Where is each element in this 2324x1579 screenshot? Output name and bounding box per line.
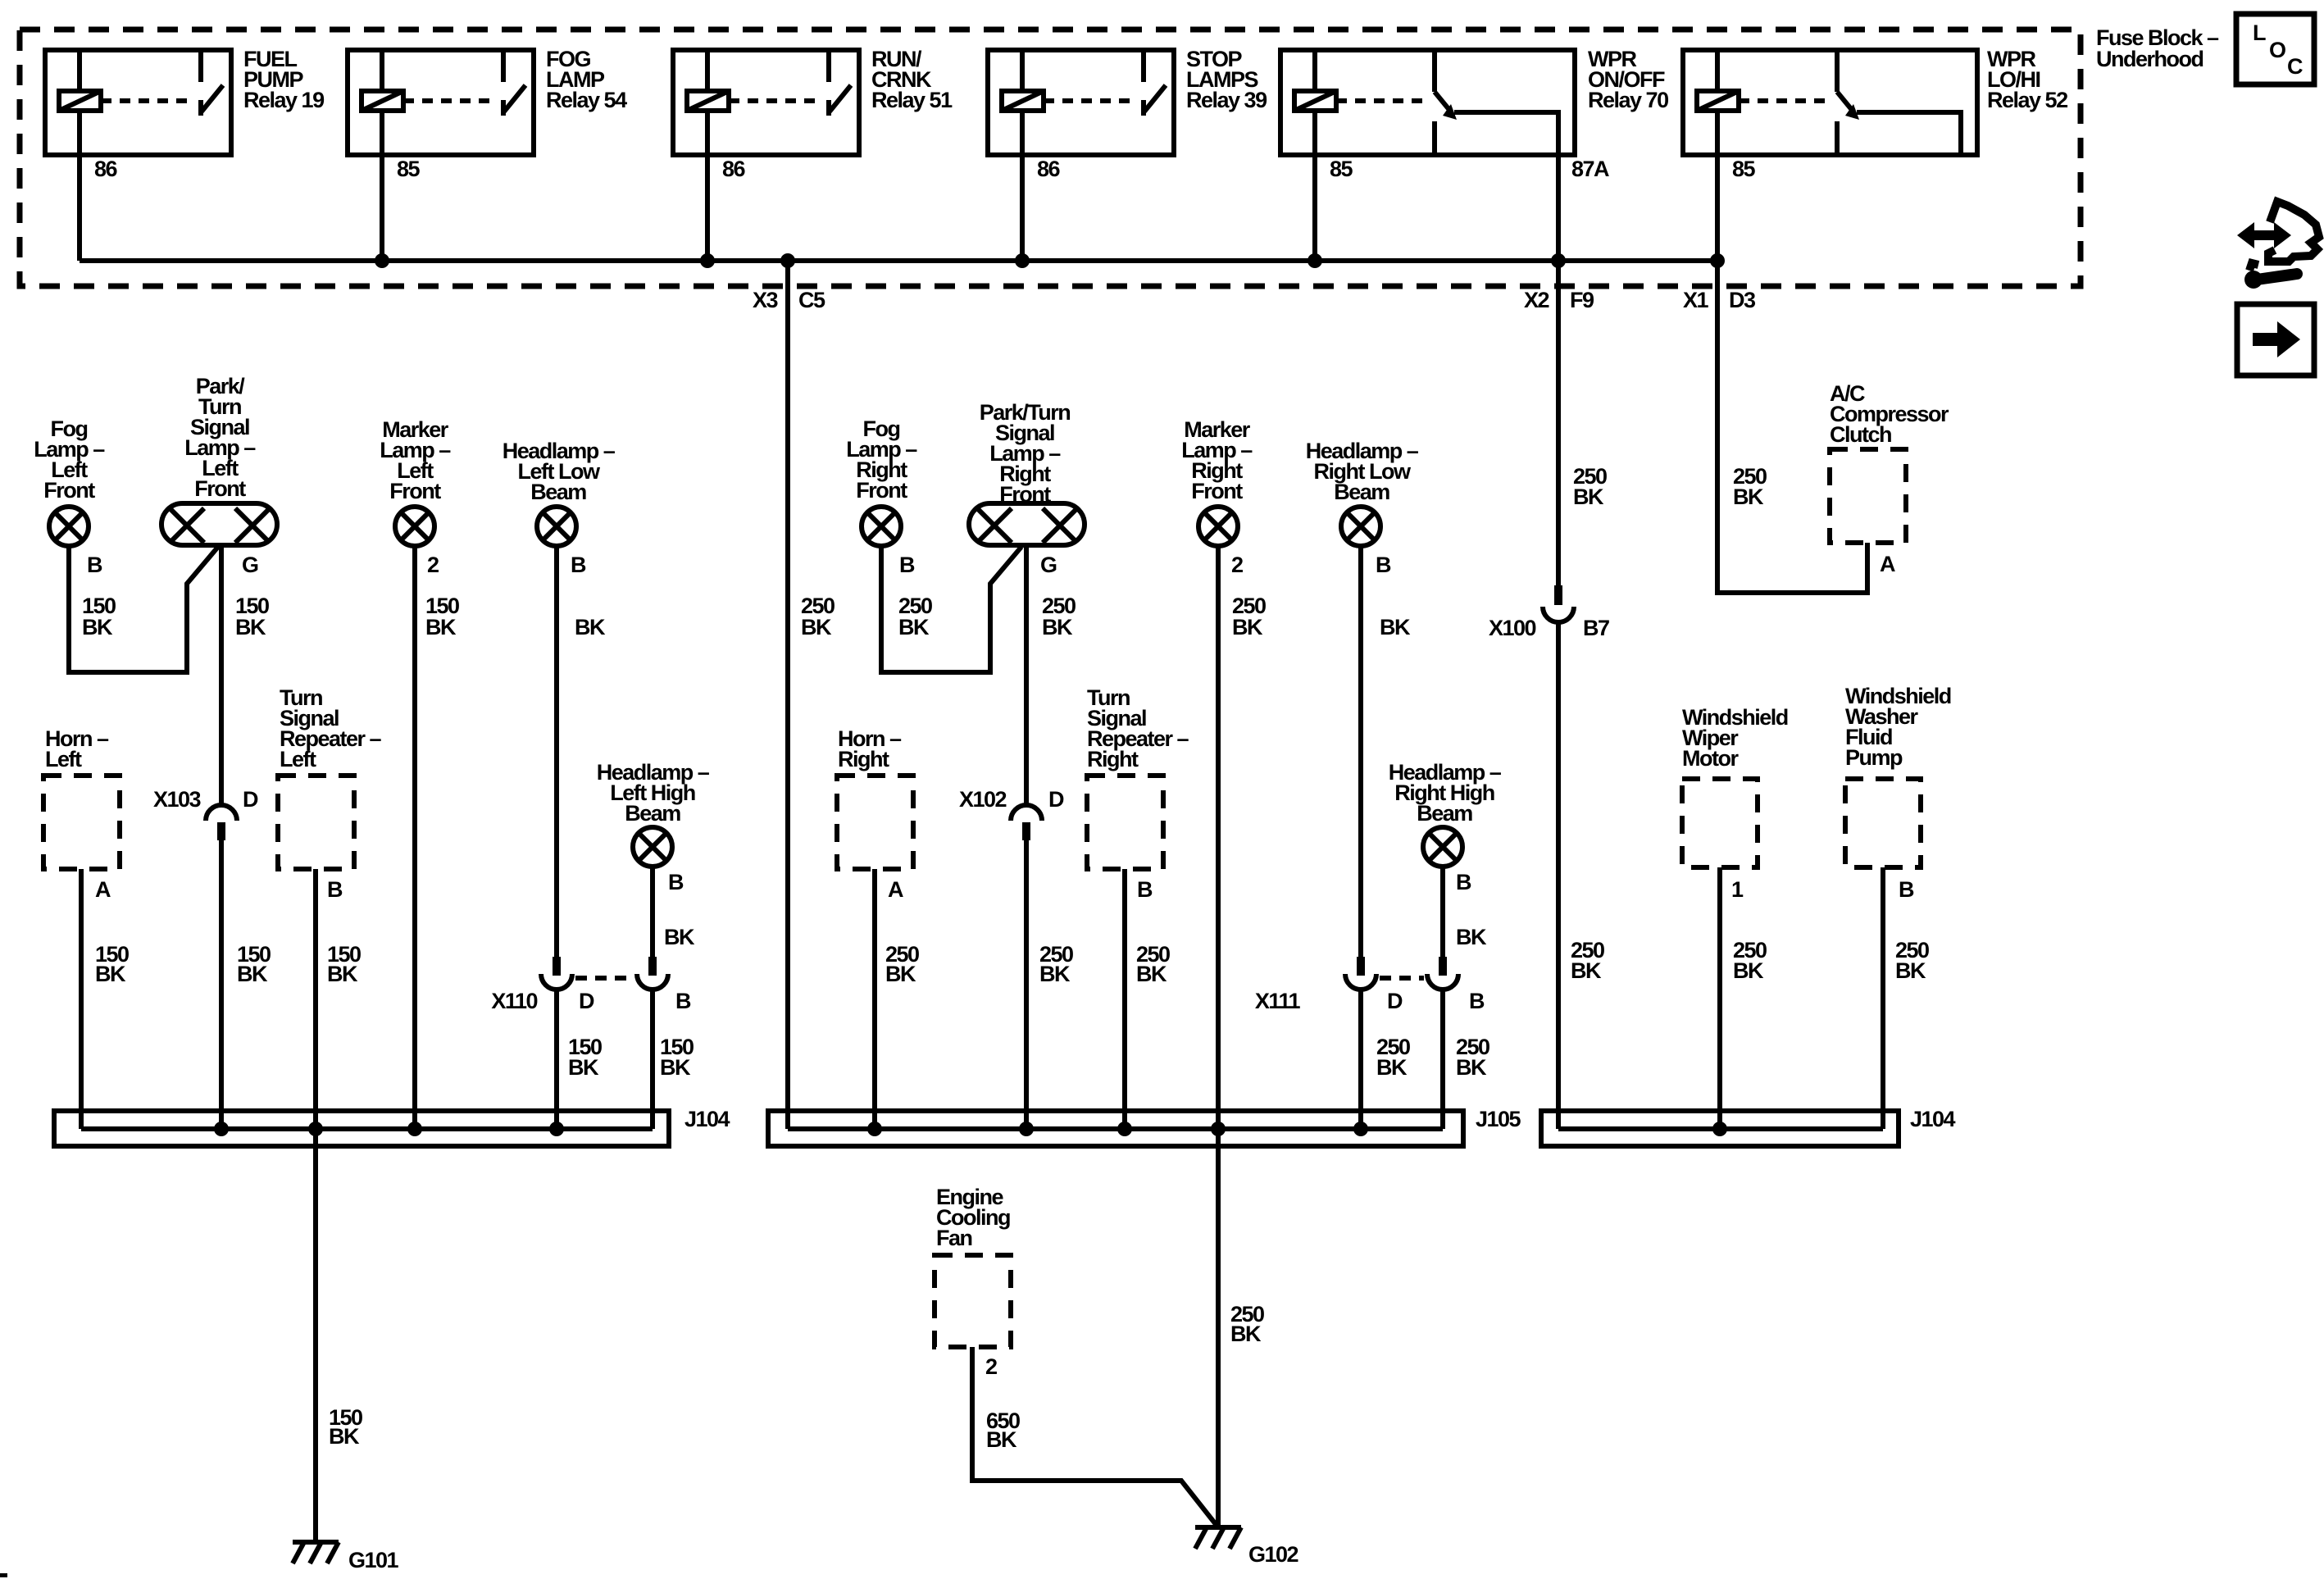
A/C compressor clutch dashed box xyxy=(1830,449,1906,543)
lamp bulb symbol marker lamp right front xyxy=(1198,507,1238,546)
svg-text:85: 85 xyxy=(1732,157,1756,181)
X103 wire label 150 BK xyxy=(237,942,271,986)
connector exit label X2 / F9 xyxy=(1524,288,1594,312)
bus junction node x=466 xyxy=(375,253,389,268)
svg-text:BK: BK xyxy=(329,1424,360,1449)
svg-text:G: G xyxy=(1040,553,1057,577)
wire 250 BK C5 from fuse block to J105 xyxy=(788,261,835,1129)
svg-text:B: B xyxy=(899,553,915,577)
relay R70 (WPR ON/OFF) box xyxy=(1280,50,1575,155)
svg-text:Beam: Beam xyxy=(530,480,586,504)
turn signal repeater right label xyxy=(1087,685,1189,771)
svg-text:Left: Left xyxy=(280,747,316,771)
J104 junction node x=506 xyxy=(407,1122,422,1136)
fog lamp left front label xyxy=(34,416,105,503)
J104 junction node x=270 xyxy=(214,1122,229,1136)
svg-text:85: 85 xyxy=(1330,157,1353,181)
svg-text:BK: BK xyxy=(986,1427,1017,1452)
svg-text:B: B xyxy=(571,553,586,577)
wire X102 to J105 xyxy=(1024,840,1029,1129)
svg-text:B: B xyxy=(1137,877,1153,902)
svg-text:Clutch: Clutch xyxy=(1830,422,1891,447)
svg-text:B: B xyxy=(1376,553,1391,577)
svg-text:BK: BK xyxy=(664,925,695,949)
svg-text:Fan: Fan xyxy=(936,1226,972,1250)
svg-text:B: B xyxy=(327,877,343,902)
relay R52 (WPR LO/HI) box xyxy=(1683,50,1977,155)
ground bus J104 right xyxy=(1541,1107,1956,1146)
fuse block internal bus wire xyxy=(80,258,1717,263)
svg-text:Underhood: Underhood xyxy=(2096,47,2203,71)
relay R52 label xyxy=(1987,47,2067,112)
relay R54 coil pin 85 wire to bus xyxy=(382,111,421,261)
wire 250 BK fog lamp right xyxy=(881,546,1021,672)
svg-text:A: A xyxy=(95,877,111,902)
inline connector X111 pin D xyxy=(1345,957,1376,990)
svg-text:2: 2 xyxy=(985,1354,997,1379)
headlamp right low beam label xyxy=(1306,439,1419,504)
bus junction node x=1247 xyxy=(1015,253,1030,268)
svg-text:Beam: Beam xyxy=(625,801,680,826)
svg-text:BK: BK xyxy=(1136,962,1167,986)
marker lamp left front label xyxy=(380,417,451,503)
wire 250 BK repeater right to J105 xyxy=(1125,869,1170,1129)
svg-text:BK: BK xyxy=(1456,925,1487,949)
svg-text:2: 2 xyxy=(427,553,439,577)
svg-text:1: 1 xyxy=(1731,877,1744,902)
relay R51 (RUN/CRNK) box xyxy=(673,50,859,155)
relay R39 label xyxy=(1186,47,1267,112)
svg-text:B: B xyxy=(668,870,684,894)
lamp bulb symbol headlamp left high beam xyxy=(633,827,672,867)
lamp bulb symbol fog lamp right front xyxy=(862,507,901,546)
svg-text:BK: BK xyxy=(327,962,358,986)
svg-text:Relay 70: Relay 70 xyxy=(1588,88,1668,112)
svg-text:BK: BK xyxy=(1380,615,1411,639)
svg-text:BK: BK xyxy=(237,962,268,986)
relay R54 label xyxy=(546,47,627,112)
wire 250 BK marker lamp right through J105 to G102 xyxy=(1218,546,1266,1527)
bus junction node x=863 xyxy=(700,253,715,268)
svg-text:85: 85 xyxy=(397,157,421,181)
svg-text:Beam: Beam xyxy=(1334,480,1389,504)
svg-text:BK: BK xyxy=(1232,615,1263,639)
X111 connector dashed link and labels xyxy=(1255,978,1485,1013)
forward arrow box xyxy=(2237,304,2314,375)
wire 150 BK fog lamp left xyxy=(69,546,218,672)
svg-text:2: 2 xyxy=(1231,553,1243,577)
svg-text:BK: BK xyxy=(1042,615,1073,639)
svg-text:A: A xyxy=(888,877,903,902)
svg-text:Front: Front xyxy=(389,479,441,503)
svg-text:86: 86 xyxy=(722,157,746,181)
svg-text:Motor: Motor xyxy=(1682,746,1739,771)
wire 250 BK D3 from relay 52 to A/C compressor clutch xyxy=(1717,261,1867,593)
svg-text:BK: BK xyxy=(568,1055,599,1080)
svg-text:G: G xyxy=(242,553,258,577)
svg-text:BK: BK xyxy=(1376,1055,1408,1080)
relay R19 label xyxy=(243,47,325,112)
svg-text:B: B xyxy=(675,989,691,1013)
relay R39 (STOP LAMPS) box xyxy=(988,50,1174,155)
svg-text:B: B xyxy=(87,553,102,577)
X102 wire label 250 BK xyxy=(1039,942,1073,986)
fuse block label xyxy=(2096,25,2219,71)
bus junction node x=2095 xyxy=(1710,253,1725,268)
svg-text:Front: Front xyxy=(194,476,246,501)
svg-text:D3: D3 xyxy=(1729,288,1756,312)
inline connector X110 pin B xyxy=(637,957,668,990)
svg-text:BK: BK xyxy=(898,615,930,639)
svg-text:D: D xyxy=(1387,989,1403,1013)
wire 650 BK engine cooling fan to G102 xyxy=(972,1347,1218,1527)
service icon: double arrow, panel outline, wrench xyxy=(2237,202,2319,289)
J105 junction node x=1067 xyxy=(867,1122,882,1136)
fuse block underhood dashed border xyxy=(20,30,2081,286)
svg-text:86: 86 xyxy=(94,157,118,181)
svg-text:BK: BK xyxy=(885,962,916,986)
lamp bulb symbol headlamp right high beam xyxy=(1423,827,1462,867)
relay R70 label xyxy=(1588,47,1668,112)
svg-text:D: D xyxy=(243,787,258,812)
J104 junction node x=679 xyxy=(549,1122,564,1136)
X110 connector dashed link and labels xyxy=(491,978,691,1013)
svg-text:C5: C5 xyxy=(798,288,825,312)
svg-text:D: D xyxy=(579,989,594,1013)
wire 150 BK park/turn left to X103 xyxy=(221,545,269,806)
lamp bulb symbol headlamp right low beam xyxy=(1341,507,1380,546)
wire 250 BK park/turn right to X102 xyxy=(1026,545,1076,806)
wire 150 BK marker lamp left to J104 xyxy=(415,546,459,1129)
svg-text:L: L xyxy=(2253,20,2266,45)
svg-text:BK: BK xyxy=(1895,958,1926,983)
svg-text:BK: BK xyxy=(660,1055,691,1080)
wire 250 BK wiper motor to J104 right xyxy=(1720,867,1767,1129)
svg-text:86: 86 xyxy=(1037,157,1061,181)
bus junction node x=1604 xyxy=(1308,253,1322,268)
svg-text:Beam: Beam xyxy=(1417,801,1472,826)
windshield wiper motor label xyxy=(1682,705,1788,771)
svg-text:BK: BK xyxy=(1571,958,1602,983)
svg-text:BK: BK xyxy=(235,615,266,639)
inline connector X100 pin B7 xyxy=(1489,585,1609,640)
marker lamp right front label xyxy=(1181,417,1253,503)
wire 250 BK horn right to J105 xyxy=(875,869,919,1129)
J105 junction node x=1372 xyxy=(1117,1122,1132,1136)
svg-text:Right: Right xyxy=(1087,747,1139,771)
ground bus J105 xyxy=(768,1107,1521,1146)
svg-text:D: D xyxy=(1048,787,1064,812)
turn signal repeater right dashed box xyxy=(1087,776,1163,869)
svg-text:B: B xyxy=(1469,989,1485,1013)
connector exit label X1 / D3 xyxy=(1683,288,1756,312)
engine cooling fan label xyxy=(936,1185,1010,1250)
horn left dashed box xyxy=(43,776,120,869)
svg-text:BK: BK xyxy=(1573,485,1604,509)
wire 250 BK X111-D to J105 xyxy=(1361,990,1410,1129)
relay R52 coil pin 85 wire to bus xyxy=(1717,111,1756,261)
relay R39 coil pin 86 wire to bus xyxy=(1022,111,1061,261)
svg-text:X3: X3 xyxy=(753,288,779,312)
svg-text:J104: J104 xyxy=(1910,1107,1956,1131)
wire X103 to J104 xyxy=(219,840,224,1129)
svg-text:G102: G102 xyxy=(1248,1542,1298,1567)
horn right label xyxy=(838,726,902,771)
svg-text:BK: BK xyxy=(1733,485,1764,509)
headlamp right high beam label xyxy=(1389,760,1502,826)
svg-text:BK: BK xyxy=(1230,1322,1262,1346)
relay R19 coil pin 86 wire to bus xyxy=(80,111,118,261)
svg-text:X110: X110 xyxy=(491,989,537,1013)
relay R19 (FUEL PUMP) box xyxy=(45,50,231,155)
svg-text:Front: Front xyxy=(856,478,907,503)
svg-text:O: O xyxy=(2269,38,2285,62)
svg-text:BK: BK xyxy=(95,962,126,986)
J105 junction node x=1252 xyxy=(1019,1122,1034,1136)
svg-text:Relay 54: Relay 54 xyxy=(546,88,627,112)
inline connector X110 pin D xyxy=(541,957,572,990)
J105 junction node x=1660 xyxy=(1353,1122,1368,1136)
lamp bulb symbol fog lamp left front xyxy=(49,507,89,546)
svg-text:X103: X103 xyxy=(153,787,202,812)
svg-text:BK: BK xyxy=(1733,958,1764,983)
lamp bulb symbol marker lamp left front xyxy=(395,507,434,546)
relay R54 (FOG LAMP) box xyxy=(348,50,534,155)
svg-text:F9: F9 xyxy=(1570,288,1594,312)
svg-text:X102: X102 xyxy=(959,787,1007,812)
svg-text:87A: 87A xyxy=(1571,157,1609,181)
svg-text:Pump: Pump xyxy=(1845,745,1903,770)
relay R51 coil pin 86 wire to bus xyxy=(707,111,746,261)
horn right dashed box xyxy=(837,776,913,869)
page corner mark xyxy=(0,1573,7,1577)
connector exit label X3 / C5 xyxy=(753,288,825,312)
horn left label xyxy=(45,726,109,771)
svg-text:BK: BK xyxy=(1456,1055,1487,1080)
J104 junction node x=385 xyxy=(308,1122,323,1136)
svg-text:X100: X100 xyxy=(1489,616,1536,640)
svg-text:X111: X111 xyxy=(1255,989,1301,1013)
svg-text:Relay 51: Relay 51 xyxy=(871,88,953,112)
wire 150 BK repeater left through J104 to G101 xyxy=(316,869,361,1542)
svg-text:A: A xyxy=(1880,552,1895,576)
ground G102 xyxy=(1195,1527,1298,1567)
inline connector X103 xyxy=(153,787,258,840)
svg-text:B7: B7 xyxy=(1583,616,1609,640)
headlamp left low beam label xyxy=(503,439,616,504)
wire BK headlamp right low beam to X111 xyxy=(1361,546,1411,957)
svg-text:X1: X1 xyxy=(1683,288,1709,312)
svg-text:J105: J105 xyxy=(1476,1107,1521,1131)
svg-text:G101: G101 xyxy=(348,1548,399,1572)
svg-text:B: B xyxy=(1899,877,1914,902)
svg-text:Right: Right xyxy=(838,747,889,771)
turn signal repeater left dashed box xyxy=(278,776,354,869)
LOC reference box xyxy=(2236,14,2314,84)
svg-text:BK: BK xyxy=(1039,962,1071,986)
lamp bulb symbol headlamp left low beam xyxy=(537,507,576,546)
headlamp left high beam label xyxy=(597,760,710,826)
windshield washer fluid pump dashed box xyxy=(1845,779,1921,867)
J104 right junction node x=2098 xyxy=(1712,1122,1727,1136)
svg-text:Relay 19: Relay 19 xyxy=(243,88,325,112)
fog lamp right front label xyxy=(846,416,917,503)
turn signal repeater left label xyxy=(280,685,382,771)
svg-text:BK: BK xyxy=(575,615,606,639)
engine cooling fan dashed box xyxy=(935,1255,1011,1347)
svg-text:BK: BK xyxy=(82,615,113,639)
svg-text:J104: J104 xyxy=(684,1107,730,1131)
svg-text:Front: Front xyxy=(1191,479,1243,503)
inline connector X102 xyxy=(959,787,1064,840)
wire 250 BK X111-B to J105 xyxy=(1443,990,1489,1129)
svg-text:C: C xyxy=(2287,54,2303,79)
park/turn signal lamp left front label xyxy=(184,374,256,501)
ground G101 xyxy=(293,1542,399,1572)
A/C compressor clutch label xyxy=(1830,381,1949,447)
bus junction node x=961 xyxy=(780,253,795,268)
windshield wiper motor dashed box xyxy=(1682,779,1758,867)
svg-text:BK: BK xyxy=(425,615,457,639)
svg-text:Relay 39: Relay 39 xyxy=(1186,88,1267,112)
park/turn signal lamp right front symbol xyxy=(969,503,1085,545)
svg-text:X2: X2 xyxy=(1524,288,1549,312)
wire 150 BK X110-D to J104 xyxy=(557,990,602,1129)
bus junction node x=1901 xyxy=(1551,253,1566,268)
J105 junction node x=1486 xyxy=(1211,1122,1226,1136)
wire BK headlamp right high beam to X111 xyxy=(1443,867,1487,957)
label 250 BK above G102 xyxy=(1230,1302,1264,1346)
relay R51 label xyxy=(871,47,953,112)
svg-text:Front: Front xyxy=(43,478,95,503)
inline connector X111 pin B xyxy=(1427,957,1458,990)
label 150 BK above G101 xyxy=(329,1405,362,1449)
windshield washer fluid pump label xyxy=(1845,684,1951,770)
park/turn signal lamp left front symbol xyxy=(161,503,277,545)
wire BK headlamp left low beam to X110 xyxy=(557,546,606,957)
wire 150 BK horn left to J104 xyxy=(81,869,129,1129)
park/turn signal lamp right front label xyxy=(980,400,1071,507)
svg-text:B: B xyxy=(1456,870,1471,894)
relay R70 coil pin 85 wire to bus xyxy=(1315,111,1353,261)
wire 250 BK X100 to J104 right xyxy=(1558,621,1604,1129)
wire 250 BK F9 from relay 70 pin 87A to X100 xyxy=(1558,155,1607,585)
svg-text:Left: Left xyxy=(45,747,82,771)
ground bus J104 left xyxy=(54,1107,730,1146)
wire 150 BK X110-B to J104 xyxy=(653,990,694,1129)
svg-text:BK: BK xyxy=(801,615,832,639)
svg-text:Relay 52: Relay 52 xyxy=(1987,88,2067,112)
wire BK headlamp left high beam to X110 xyxy=(653,867,695,957)
wire 250 BK washer pump to J104 right xyxy=(1883,867,1929,1129)
